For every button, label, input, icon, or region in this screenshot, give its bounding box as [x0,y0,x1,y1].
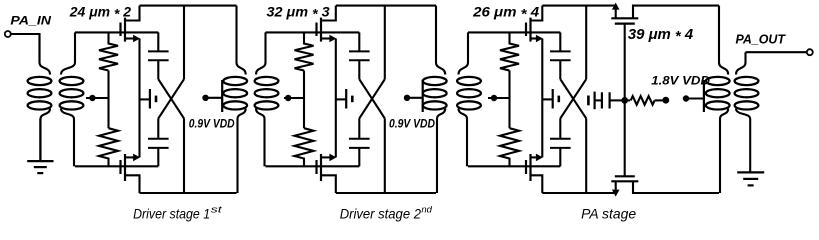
pin M2a source arrow [329,35,336,43]
wire Rg lead [625,99,631,101]
wire cascode gate vertical [624,24,626,177]
wire stage1 center-tap feed [86,97,109,99]
node VDD2 supply dot [404,95,410,101]
wire stage3 bottom gate rail [468,165,560,167]
pin M1b source arrow [133,154,140,162]
capacitor C1t tail bypass plate [149,89,151,109]
svg-text:24 μm * 2: 24 μm * 2 [69,4,131,22]
node stage1 center-tap dot [89,95,95,101]
wire M3b drain [531,175,543,193]
ground output bar1 [737,171,764,173]
capacitor C3t tail bypass short plate [557,96,560,103]
resistor R1b gate bias bottom [99,128,118,166]
transistor M2a channel bar [320,18,322,42]
pin M4b source arrow [612,190,620,197]
capacitor Cser plate right [608,92,610,108]
wire stage2 tail stub [336,98,346,100]
port PA_IN terminal [5,31,11,37]
pin M4a source arrow [612,3,620,10]
wire stage3 top gate rail [468,31,560,33]
wire stage3 cross rail lower [585,118,587,193]
wire VDD2 to T3 tap [407,97,423,99]
resistor R1a gate bias top [99,32,118,70]
wire C2n1 bottom lead [358,60,360,79]
wire stage2 cross rail lower [384,118,386,193]
ground input bar3 [37,172,43,174]
svg-text:26 μm * 4: 26 μm * 4 [472,5,539,23]
capacitor C2t tail bypass plate [345,89,347,109]
wire M2a source [321,37,331,39]
capacitor C2n1 neutralization [349,50,370,52]
capacitor C2n2 neutralization [349,138,370,140]
transformer T4 primary winding [718,6,720,63]
capacitor C1t tail bypass short plate [155,96,158,103]
wire stage3 tail stub [542,98,552,100]
wire stage1 cross leg A [158,79,184,118]
wire stage2 bottom drain rail [336,192,436,194]
wire stage3 cross leg A [560,79,586,118]
transformer T1 primary winding [38,34,40,63]
ground input bar2 [34,166,47,168]
wire stage1 cross rail upper [183,6,185,80]
node stage3 center-tap dot [491,95,497,101]
transistor M4b channel bar [611,180,638,182]
svg-text:39 μm * 4: 39 μm * 4 [628,27,693,45]
node cascode gate junction [621,97,628,104]
wire PA_IN to T1 [11,34,40,63]
svg-text:Driver stage 2: Driver stage 2 [340,207,422,222]
capacitor Cser plate left [601,92,603,108]
wire stage2 common source [335,39,337,158]
capacitor C2t tail bypass short plate [351,96,354,103]
wire C3g to Cser [595,99,602,101]
wire C1n2 top lead [157,118,159,138]
transformer T2 secondary winding [264,32,266,62]
wire stage3 common source [541,39,543,158]
wire M1b drain [125,175,140,193]
capacitor C3g bypass short plate [587,96,590,106]
resistor R3b gate bias bottom [500,128,519,166]
wire stage3 top drain rail [542,5,615,7]
wire M3b source [531,156,538,158]
ground input side [39,119,41,161]
transistor M2b gate bar [315,160,317,174]
resistor R3a gate bias top [500,32,519,70]
port PA_OUT terminal [807,49,813,55]
transformer T3 secondary winding [467,32,469,62]
ground output bar2 [743,178,758,180]
wire M3a drain [531,6,543,21]
svg-text:0.9V VDD: 0.9V VDD [389,116,435,130]
transformer T4 primary center-tap bar [703,80,705,112]
transistor M2b channel bar [320,154,322,181]
wire Rg to VDD dot [655,99,663,101]
wire M4b source [615,181,617,190]
wire stage2 cross leg A [359,79,385,118]
pin M3b source arrow [536,154,543,162]
wire M1a drain [125,6,140,21]
wire stage3 cross leg B [560,79,586,118]
svg-text:nd: nd [421,205,433,215]
wire stage2 top drain rail [336,5,436,7]
wire C3n1 top lead [559,32,561,51]
wire stage1 bottom drain rail [140,192,237,194]
wire C3n2 bottom lead [559,148,561,166]
wire M2b source [321,156,331,158]
wire M4b drain [633,181,719,193]
capacitor C1n1 neutralization [148,50,169,52]
wire stage1 bottom gate rail [75,165,158,167]
wire VDD4 to T4 tap [686,97,704,99]
transistor M3a gate bar [525,23,527,37]
node VDD3 at resistor [662,97,669,104]
wire M3a source [531,37,538,39]
capacitor C3g bypass plate [593,92,595,110]
capacitor C3t tail bypass plate [552,89,554,109]
svg-text:PA_OUT: PA_OUT [736,33,787,47]
transformer T1 secondary winding [74,32,76,62]
wire C3n2 top lead [559,118,561,138]
transformer T2 primary center-tap bar [221,80,223,112]
svg-text:1.8V VDD: 1.8V VDD [651,75,710,88]
transistor M1b gate bar [119,160,121,174]
transformer T4 secondary winding [744,52,746,62]
transformer T3 primary center-tap bar [422,80,424,112]
pin M1a source arrow [133,35,140,43]
wire C2n1 top lead [358,32,360,51]
wire stage1 top gate rail [75,31,158,33]
wire M2b drain [321,175,336,193]
transistor M1b channel bar [124,154,126,181]
wire M1b source [125,156,135,158]
svg-text:st: st [211,205,223,215]
wire C1n2 bottom lead [157,148,159,166]
wire stage1 cross leg B [158,79,184,118]
transistor M3a channel bar [529,18,531,42]
transistor M3b channel bar [529,154,531,181]
transformer T3 primary winding [435,6,437,63]
wire C1n1 bottom lead [157,60,159,79]
wire stage1 tail stub [140,98,150,100]
wire Cser to cascode gate [610,99,625,101]
wire stage2 cross rail upper [384,6,386,80]
transformer T2 primary winding [235,6,237,63]
wire C3n1 bottom lead [559,60,561,79]
resistor R2b gate bias bottom [295,128,314,166]
capacitor C3n2 neutralization [550,138,571,140]
ground output bar3 [748,184,754,186]
node VDD4 at T4 tap [683,95,689,101]
node VDD1 supply dot [202,95,208,101]
wire stage3 cross rail upper [585,6,587,80]
wire stage2 cross leg B [359,79,385,118]
wire stage3 bias column mid [508,71,510,129]
wire M2a drain [321,6,336,21]
wire M4a drain [633,6,719,19]
transistor M2a gate bar [315,23,317,37]
wire stage2 center-tap feed [284,97,304,99]
wire stage2 bias column mid [303,71,305,129]
wire VDD1 to T2 tap [206,97,223,99]
wire M4a source [615,5,617,18]
ground input bar1 [27,160,53,162]
wire stage3 bottom drain rail [542,192,615,194]
wire C1n1 top lead [157,32,159,51]
wire stage1 cross rail lower [183,118,185,193]
svg-text:PA_IN: PA_IN [10,13,51,27]
wire C2n2 top lead [358,118,360,138]
resistor Rg cascode gate bias [631,96,655,105]
wire C2n2 bottom lead [358,148,360,166]
wire T4 to PA_OUT [746,51,807,53]
transistor M3b gate bar [525,160,527,174]
wire stage1 top drain rail [140,5,237,7]
svg-text:0.9V VDD: 0.9V VDD [189,116,235,130]
wire stage2 bottom gate rail [266,165,360,167]
transistor M1a gate bar [119,23,121,37]
capacitor C3n1 neutralization [550,50,571,52]
wire stage3 center-tap feed [488,97,510,99]
svg-text:Driver stage 1: Driver stage 1 [133,207,210,222]
pin M3a source arrow [536,35,543,43]
transistor M4a gate bar [615,23,635,25]
pin M2b source arrow [329,154,336,162]
transistor M1a channel bar [124,18,126,42]
transistor M4b gate bar [615,175,635,177]
svg-text:PA stage: PA stage [581,207,636,222]
wire stage1 bias column mid [107,71,109,129]
capacitor C1n2 neutralization [148,138,169,140]
node stage2 center-tap dot [285,95,291,101]
transistor M4a channel bar [611,17,638,19]
wire M1a source [125,37,135,39]
resistor R2a gate bias top [295,32,314,70]
wire stage2 top gate rail [266,31,360,33]
wire stage1 common source [138,39,140,158]
